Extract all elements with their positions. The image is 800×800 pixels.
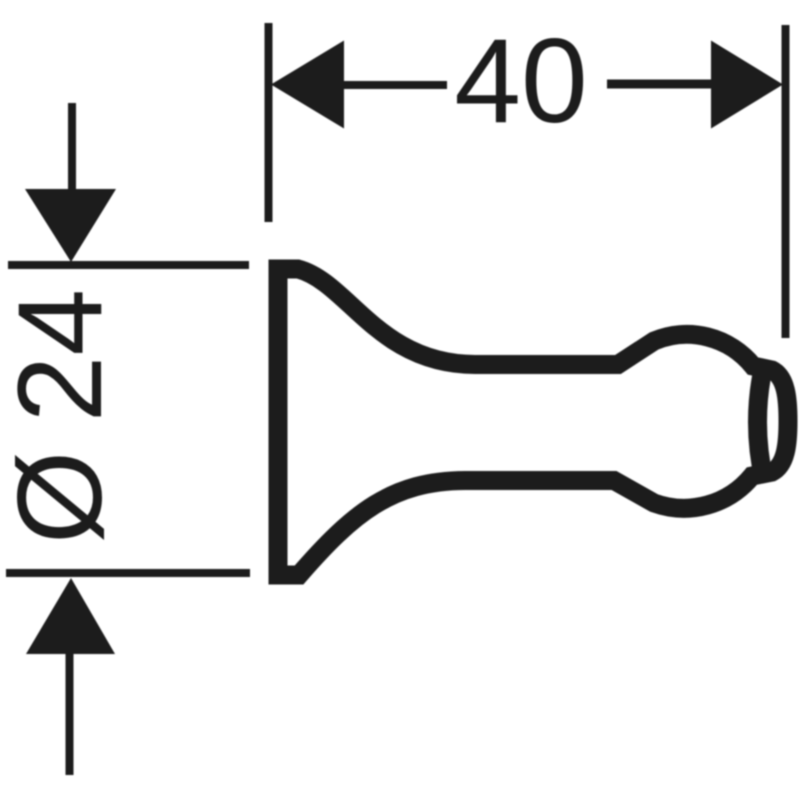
hook tip cap inner arc xyxy=(758,364,765,480)
svg-text:Ø 24: Ø 24 xyxy=(0,289,127,544)
node: upper arrowhead of dimension 24 xyxy=(25,189,116,262)
wire: lower leader of dimension 24 xyxy=(66,654,74,775)
node: lower arrowhead of dimension 24 xyxy=(26,578,115,654)
wire: right tail of dimension 40 xyxy=(607,80,717,89)
node: right arrowhead of dimension 40 xyxy=(711,41,783,129)
svg-text:40: 40 xyxy=(454,14,587,148)
hook body outline xyxy=(278,269,788,575)
wire: top extension line of dimension 24 xyxy=(8,261,249,269)
node: left arrowhead of dimension 40 xyxy=(271,41,344,129)
wire: upper leader of dimension 24 xyxy=(68,103,76,200)
wire: bottom extension line of dimension 24 xyxy=(6,569,250,577)
wire: right extension line of dimension 40 xyxy=(782,25,790,338)
wire: left tail of dimension 40 xyxy=(340,81,447,89)
wire: left extension line of dimension 40 xyxy=(265,23,273,222)
